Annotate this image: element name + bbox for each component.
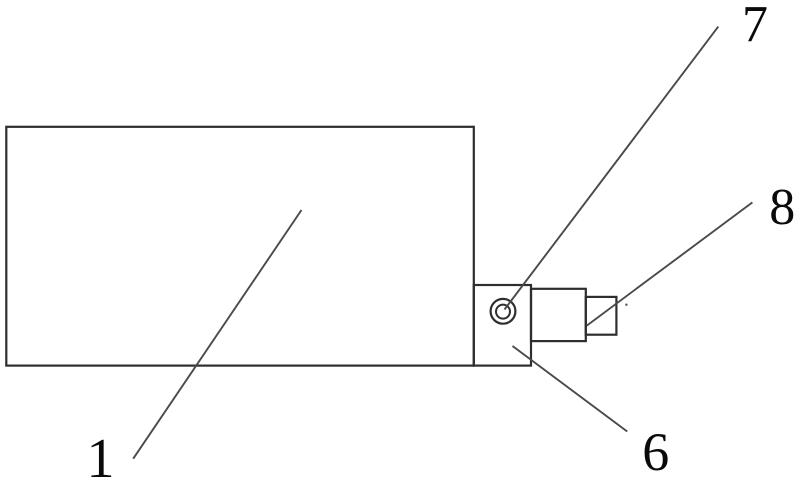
plug 8 (small end rectangle) xyxy=(586,297,617,335)
leader line to label 6 xyxy=(513,346,628,432)
svg-text:6: 6 xyxy=(642,422,669,482)
stray dot xyxy=(625,304,627,306)
leader line to label 8 xyxy=(587,202,753,325)
svg-text:1: 1 xyxy=(87,428,115,482)
svg-text:7: 7 xyxy=(742,0,768,53)
screw 7 inner circle xyxy=(496,305,510,319)
leader line to label 7 xyxy=(505,27,719,310)
screw 7 outer circle xyxy=(491,299,516,324)
svg-text:8: 8 xyxy=(769,179,795,236)
connector housing (middle rectangle) xyxy=(531,289,586,341)
leader line to label 1 xyxy=(133,210,301,459)
main body 1 (large rectangle) xyxy=(6,127,474,366)
mounting block 6 xyxy=(474,285,531,366)
